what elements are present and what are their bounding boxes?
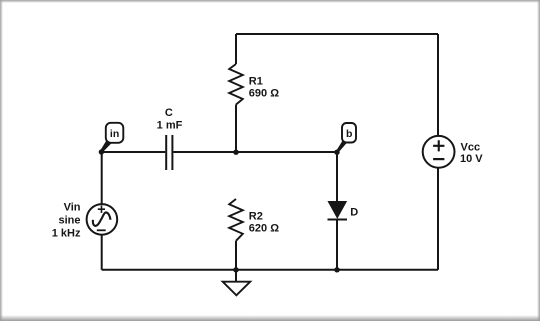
svg-text:1 mF: 1 mF bbox=[157, 119, 183, 131]
svg-text:620 Ω: 620 Ω bbox=[249, 222, 279, 234]
wire: right rail lower (Vcc to bottom rail) bbox=[437, 168, 439, 270]
wire: middle right segment (capacitor to node b) bbox=[173, 151, 337, 153]
svg-text:Vcc: Vcc bbox=[461, 141, 481, 153]
wire: right rail upper (top rail to Vcc) bbox=[437, 34, 439, 136]
svg-text:R2: R2 bbox=[249, 210, 263, 222]
source Vcc 10 V bbox=[423, 136, 484, 168]
wire: diode top lead (node b down) bbox=[336, 152, 338, 202]
source Vin sine 1 kHz bbox=[52, 202, 117, 240]
resistor R1 bbox=[229, 64, 279, 105]
svg-text:Vin: Vin bbox=[64, 202, 81, 214]
wire: R1 bottom lead to middle junction bbox=[235, 105, 237, 153]
junction: bottom rail diode dot bbox=[334, 267, 339, 272]
wire: ground stub bbox=[235, 270, 237, 282]
wire: Vin top lead (node in down to source) bbox=[101, 152, 103, 204]
wire: top rail bbox=[236, 33, 438, 35]
svg-text:sine: sine bbox=[58, 215, 80, 227]
wire: R2 bottom lead bbox=[235, 241, 237, 270]
svg-text:10 V: 10 V bbox=[460, 153, 483, 165]
junction: node b dot bbox=[334, 150, 339, 155]
capacitor C 1 mF bbox=[157, 107, 183, 170]
node in (label callout) bbox=[100, 123, 123, 153]
junction: bottom rail ground dot bbox=[233, 267, 238, 272]
svg-text:1 kHz: 1 kHz bbox=[52, 228, 81, 240]
junction: middle rail / R1 R2 dot bbox=[233, 150, 238, 155]
node b (label callout) bbox=[336, 123, 356, 153]
svg-text:690 Ω: 690 Ω bbox=[249, 87, 279, 99]
ground bbox=[223, 282, 251, 296]
svg-text:in: in bbox=[110, 128, 119, 140]
svg-text:b: b bbox=[346, 128, 352, 140]
resistor R2 bbox=[229, 199, 279, 241]
diode D bbox=[328, 202, 359, 220]
wire: R1 top lead bbox=[235, 34, 237, 64]
wire: bottom rail bbox=[102, 269, 438, 271]
svg-text:D: D bbox=[350, 207, 358, 219]
wire: Vin bottom lead bbox=[101, 235, 103, 270]
svg-text:R1: R1 bbox=[249, 75, 263, 87]
svg-text:C: C bbox=[165, 107, 173, 119]
wire: middle left segment (node in to capacitor) bbox=[102, 151, 166, 153]
junction: node in dot bbox=[99, 149, 104, 154]
wire: diode bottom lead bbox=[336, 220, 338, 270]
